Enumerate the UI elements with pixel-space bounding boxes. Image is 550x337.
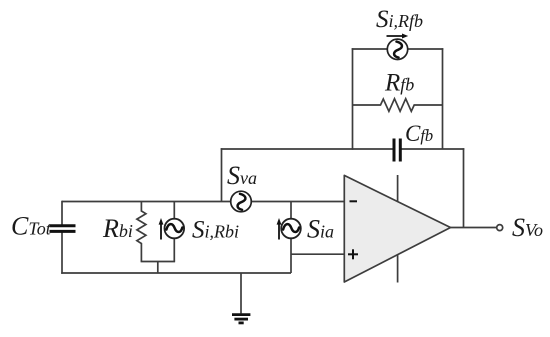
resistor Rbi: [137, 202, 146, 262]
resistor Rfb: [353, 99, 443, 112]
current source Sia: [281, 219, 301, 239]
op-amp bottom power pin: [397, 255, 399, 283]
current source Si,Rfb: [387, 39, 407, 59]
wire: Si,Rbi branch vertical: [173, 202, 175, 262]
output terminal (open circle): [497, 225, 503, 231]
svg-text:CTot: CTot: [11, 212, 52, 241]
arrow for Si,Rfb (pointing right): [387, 34, 409, 39]
svg-text:Si,Rbi: Si,Rbi: [192, 217, 239, 244]
capacitor CTot: [50, 226, 76, 232]
wire: feedback top branch: [352, 48, 444, 50]
wire: feedback right drop to output node: [463, 148, 465, 227]
current source Si,Rbi: [165, 219, 185, 239]
wire: bottom ground rail: [61, 272, 291, 274]
wire: riser from inverting rail up to feedback line: [221, 148, 223, 201]
capacitor Cfb: [394, 139, 400, 162]
wire: stem from sub-rail to ground rail: [157, 262, 159, 274]
op-amp U1: [344, 175, 450, 282]
arrow for Si,Rbi (pointing up): [159, 218, 164, 240]
wire: feedback left rail: [352, 48, 354, 150]
svg-text:Cfb: Cfb: [405, 121, 433, 146]
current source Sia branch vertical: [290, 202, 292, 274]
op-amp top power pin: [397, 175, 399, 202]
ground (bars): [232, 315, 250, 323]
wire: left vertical branch with CTot (lower segment): [61, 232, 63, 274]
wire: feedback bottom line (right of Cfb): [401, 148, 465, 150]
wire: top input rail from CTot node to op-amp inverting input: [62, 201, 344, 203]
wire: output: [451, 227, 497, 229]
voltage noise source Sva (inline on top rail): [231, 191, 252, 212]
wire: feedback right rail: [442, 48, 444, 149]
wire: feedback bottom line (left of Cfb): [221, 148, 394, 150]
wire: op-amp non-inverting input: [291, 253, 344, 255]
svg-text:Sva: Sva: [227, 161, 257, 190]
ground (stem): [240, 273, 242, 313]
op-amp plus sign: [348, 249, 358, 259]
wire: sub-rail joining Rbi and Si,Rbi bottoms: [141, 261, 176, 263]
svg-text:Rbi: Rbi: [102, 214, 133, 243]
svg-text:Rfb: Rfb: [384, 70, 414, 97]
arrow for Sia (pointing up): [277, 218, 282, 240]
svg-text:Sia: Sia: [307, 215, 334, 244]
op-amp minus sign: [350, 200, 358, 202]
svg-text:Si,Rfb: Si,Rfb: [376, 6, 423, 33]
svg-text:SVo: SVo: [512, 213, 543, 242]
wire: left vertical branch with CTot (upper segment): [61, 201, 63, 225]
